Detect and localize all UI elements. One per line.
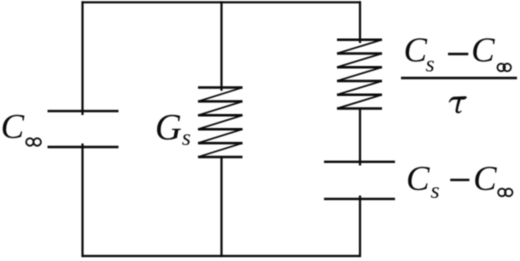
svg-text:C: C bbox=[404, 31, 428, 70]
label G_s bbox=[155, 108, 191, 151]
svg-text:s: s bbox=[182, 125, 191, 150]
svg-text:G: G bbox=[155, 108, 182, 149]
label C_inf bbox=[1, 107, 41, 146]
svg-text:C: C bbox=[471, 31, 495, 70]
label (Cs - Cinf)/tau bbox=[401, 31, 517, 114]
wire: middle branch lower lead bbox=[220, 157, 222, 257]
wire: right branch upper lead bbox=[359, 1, 361, 43]
wire: bottom rail bbox=[82, 255, 362, 257]
resistor (Cs-Cinf)/tau bbox=[337, 40, 382, 109]
wire: left branch lower lead bbox=[81, 144, 83, 258]
svg-text:C: C bbox=[1, 107, 25, 146]
wire: right branch lower lead bbox=[359, 196, 361, 258]
wire: left branch upper lead bbox=[81, 1, 83, 115]
svg-text:s: s bbox=[431, 178, 440, 203]
svg-text:C: C bbox=[473, 159, 497, 198]
svg-text:s: s bbox=[426, 52, 435, 77]
wire: middle branch upper lead bbox=[220, 1, 222, 91]
capacitor C_inf bbox=[48, 111, 119, 147]
wire: top rail bbox=[82, 1, 362, 3]
svg-text:C: C bbox=[406, 159, 430, 198]
wire: right branch middle lead bbox=[359, 109, 361, 166]
capacitor Cs-Cinf bbox=[324, 162, 395, 199]
label Cs - Cinf bbox=[406, 159, 512, 203]
resistor G_s bbox=[198, 88, 243, 158]
